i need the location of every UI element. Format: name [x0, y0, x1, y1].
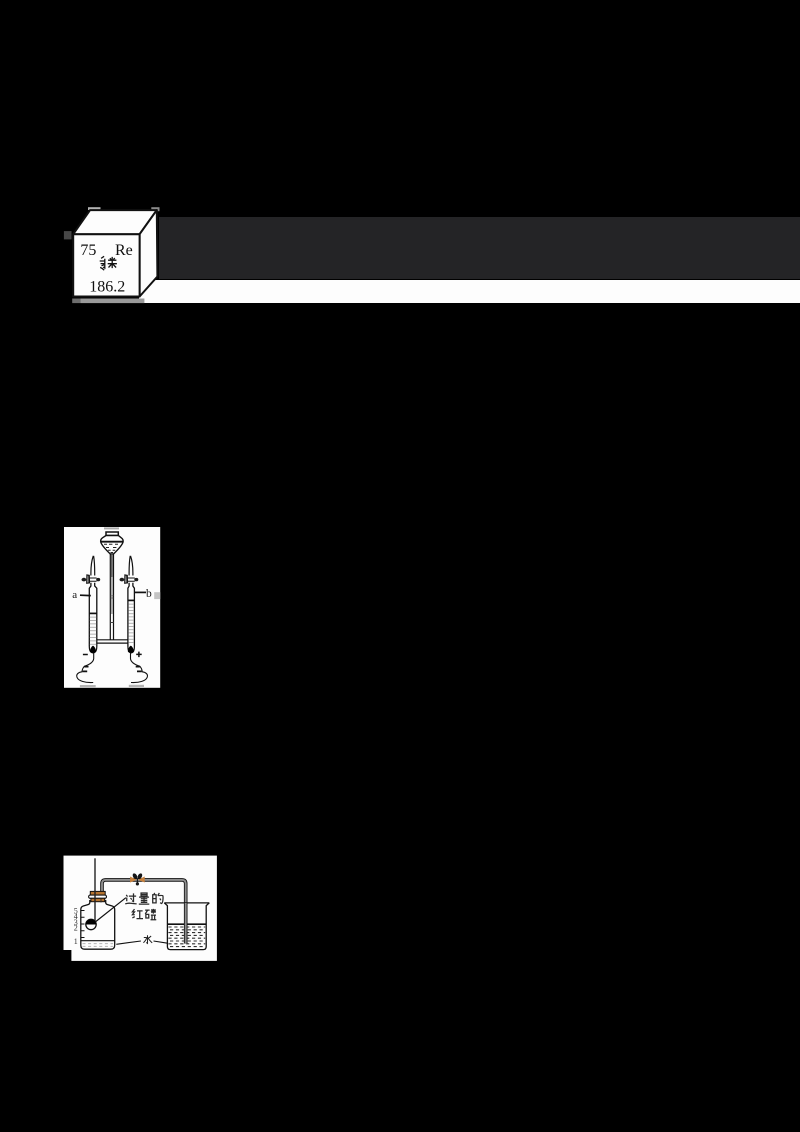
right electrode — [128, 646, 134, 653]
label b leader dash — [135, 591, 146, 593]
gray scan strip bottom-left — [80, 685, 96, 687]
tube tail inside beaker — [184, 903, 188, 944]
left electrode — [90, 646, 96, 653]
pinch clamp orange bow-tie — [130, 877, 145, 883]
flask graduation ticks — [81, 911, 85, 938]
left stopcock plug barrel — [87, 575, 90, 583]
left stopcock right nut — [96, 578, 100, 581]
cube top face — [73, 210, 157, 234]
funnel reservoir neck — [106, 532, 118, 536]
svg-text:75: 75 — [80, 242, 96, 259]
bent delivery tube black outline — [102, 880, 186, 944]
white patch under cube lower-right — [139, 295, 159, 303]
plus sign — [136, 652, 142, 658]
gray scan square at right edge — [154, 592, 160, 599]
minus sign — [83, 654, 88, 656]
left tube water line — [89, 612, 97, 614]
figure 3: red phosphorus air-oxygen experiment — [63, 855, 218, 962]
glass tube through stopper — [94, 858, 96, 921]
beaker water dashes — [168, 927, 205, 944]
flask water line — [81, 940, 115, 942]
svg-text:186.2: 186.2 — [89, 278, 125, 295]
white figure background — [64, 856, 217, 961]
element name glyph (lai, custom strokes) — [100, 256, 117, 270]
beaker water surface — [167, 923, 206, 925]
gray scan strip above funnel — [104, 527, 119, 529]
central tube marks — [110, 596, 113, 623]
gray scan artifact top-right corner — [151, 207, 159, 211]
gray scan artifact square left of cube — [64, 231, 72, 239]
black scan notch bottom-left — [63, 950, 71, 961]
right tube column — [128, 583, 134, 647]
bent delivery tube gray core — [102, 880, 186, 944]
right stopcock plug barrel — [125, 575, 128, 583]
funnel liquid dashes — [104, 544, 118, 552]
left tube graduations — [90, 617, 97, 644]
label 过量的 (excess) custom glyphs — [125, 893, 163, 904]
figure 2: water electrolysis apparatus — [64, 527, 161, 689]
leader from 水 to beaker water — [154, 941, 170, 944]
right stopcock right nut — [134, 578, 138, 581]
left wire — [77, 653, 94, 683]
spoon bowl white — [86, 919, 96, 929]
figure 1: periodic-table element cube — [55, 205, 167, 307]
label 红磷 (red phosphorus) custom glyphs — [132, 909, 156, 920]
delivery tube stub into stopper — [100, 899, 102, 903]
label leader to phosphorus — [95, 898, 126, 922]
rubber stopper top band — [90, 891, 105, 895]
left stopcock left nub — [82, 578, 87, 582]
cube front face — [73, 234, 139, 296]
right tube water line — [128, 599, 134, 601]
left stopcock spindle — [89, 578, 96, 581]
bottom connecting channel — [97, 640, 128, 643]
red phosphorus heap (black) — [86, 919, 96, 924]
svg-text:a: a — [72, 589, 77, 601]
svg-text:1: 1 — [74, 937, 78, 946]
flask water dashes — [83, 944, 114, 947]
white equation band — [139, 280, 800, 303]
right tube bottom cup — [128, 647, 134, 653]
leader from 水 to flask water — [116, 941, 141, 944]
label a leader dash — [80, 594, 91, 596]
dark gray band right of cube — [159, 217, 800, 279]
central tube — [110, 554, 113, 640]
pinch clamp black wings — [132, 873, 139, 880]
beaker rim — [164, 902, 209, 904]
svg-text:2: 2 — [74, 924, 78, 933]
beaker body — [164, 903, 209, 950]
left tube bottom cup — [89, 647, 97, 653]
gray scan artifact top-left of cube top face — [88, 207, 101, 210]
funnel liquid line — [101, 541, 123, 543]
gray scan strip below cube — [72, 299, 80, 304]
right tube graduations — [128, 604, 134, 642]
cube right face — [140, 210, 158, 296]
label 水 (water) custom glyph — [143, 935, 152, 943]
flask body — [81, 900, 115, 949]
svg-text:Re: Re — [115, 242, 133, 259]
right wire — [131, 653, 148, 683]
rubber stopper white collar — [89, 895, 107, 898]
left gas tube spike tip — [91, 556, 95, 576]
white figure background — [64, 527, 160, 688]
svg-text:b: b — [146, 588, 152, 600]
right gas tube spike tip — [129, 556, 133, 576]
funnel reservoir bulb — [101, 536, 123, 555]
gray scan strip bottom-right — [129, 685, 144, 687]
right stopcock left nub — [120, 578, 125, 582]
pinch clamp stem and dot — [136, 879, 138, 883]
right stopcock spindle — [127, 578, 135, 581]
rubber stopper lower band — [91, 898, 105, 901]
left tube column — [89, 583, 97, 647]
